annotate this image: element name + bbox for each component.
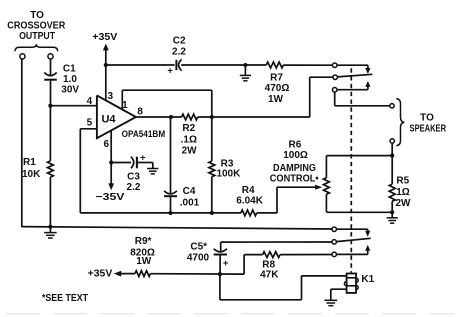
svg-text:6: 6 [104,139,110,150]
svg-text:−35V: −35V [96,192,125,203]
svg-text:4: 4 [87,96,93,107]
svg-text:C5*: C5* [190,242,207,253]
svg-text:DAMPING: DAMPING [273,163,316,174]
svg-text:100K: 100K [216,169,241,180]
svg-text:CROSSOVER: CROSSOVER [7,21,66,32]
svg-text:C3: C3 [127,172,140,183]
svg-text:+35V: +35V [92,32,117,43]
svg-text:TO: TO [420,112,434,123]
svg-text:R9*: R9* [135,236,152,247]
svg-text:6.04K: 6.04K [236,196,263,207]
svg-text:R1: R1 [23,157,36,168]
svg-text:U4: U4 [101,113,116,125]
svg-text:*SEE TEXT: *SEE TEXT [42,293,88,304]
svg-text:R4: R4 [242,185,255,196]
svg-text:2.2: 2.2 [127,182,141,193]
svg-text:OUTPUT: OUTPUT [19,31,55,42]
svg-text:+: + [223,258,229,269]
svg-text:3: 3 [108,91,114,102]
svg-text:1Ω: 1Ω [396,187,410,198]
svg-text:4700: 4700 [187,253,210,264]
svg-text:+: + [140,153,146,164]
svg-text:10K: 10K [22,169,41,180]
svg-text:2W: 2W [182,145,198,156]
svg-text:470Ω: 470Ω [265,83,290,94]
svg-text:R2: R2 [182,123,195,134]
svg-text:8: 8 [137,107,143,118]
svg-text:1W: 1W [268,94,284,105]
svg-text:R5: R5 [396,175,409,186]
svg-text:47K: 47K [260,270,279,281]
svg-text:30V: 30V [61,85,79,96]
svg-text:K1: K1 [361,274,374,285]
svg-text:+: + [167,66,173,77]
svg-text:2W: 2W [396,198,412,209]
svg-text:TO: TO [30,10,44,21]
svg-text:1W: 1W [136,256,152,267]
svg-text:5: 5 [87,118,93,129]
svg-text:C4: C4 [183,186,196,197]
svg-text:CONTROL•: CONTROL• [270,174,319,185]
svg-text:2.2: 2.2 [172,47,186,58]
svg-text:R7: R7 [270,73,283,84]
svg-text:.001: .001 [180,197,200,208]
svg-text:SPEAKER: SPEAKER [410,124,447,135]
svg-text:1.0: 1.0 [63,74,77,85]
svg-text:.1Ω: .1Ω [181,134,197,145]
svg-text:C2: C2 [173,35,186,46]
svg-text:100Ω: 100Ω [283,150,308,161]
svg-text:OPA541BM: OPA541BM [122,129,166,140]
svg-text:1: 1 [122,100,128,111]
svg-text:+35V: +35V [88,268,113,279]
